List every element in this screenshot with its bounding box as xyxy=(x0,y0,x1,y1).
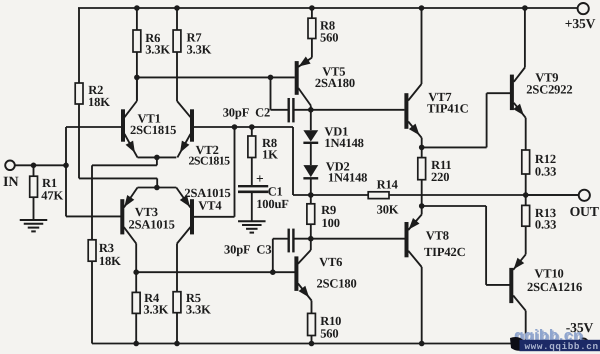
svg-text:18K: 18K xyxy=(88,95,110,109)
svg-text:2SC2922: 2SC2922 xyxy=(526,82,572,96)
svg-text:www.qqibb.cn: www.qqibb.cn xyxy=(525,341,599,352)
svg-text:2SC1815: 2SC1815 xyxy=(130,123,176,137)
svg-text:18K: 18K xyxy=(99,254,121,268)
svg-text:1N4148: 1N4148 xyxy=(324,136,363,150)
svg-text:2SC1815: 2SC1815 xyxy=(189,153,231,167)
svg-text:VT6: VT6 xyxy=(319,255,342,269)
svg-text:3.3K: 3.3K xyxy=(187,42,212,56)
svg-text:1K: 1K xyxy=(262,147,278,161)
svg-text:R3: R3 xyxy=(99,241,114,255)
svg-text:+: + xyxy=(256,171,264,186)
svg-text:+35V: +35V xyxy=(565,16,596,31)
svg-text:30K: 30K xyxy=(377,203,399,217)
svg-text:OUT: OUT xyxy=(570,204,599,219)
svg-text:3.3K: 3.3K xyxy=(186,303,211,317)
svg-text:R14: R14 xyxy=(377,178,399,192)
svg-text:IN: IN xyxy=(3,174,19,190)
svg-text:560: 560 xyxy=(320,31,338,45)
svg-text:3.3K: 3.3K xyxy=(145,43,170,57)
svg-text:TIP41C: TIP41C xyxy=(427,101,469,115)
svg-text:0.33: 0.33 xyxy=(535,218,556,232)
svg-text:2SA180: 2SA180 xyxy=(315,76,355,90)
svg-text:1N4148: 1N4148 xyxy=(328,171,367,185)
svg-text:47K: 47K xyxy=(41,189,63,203)
svg-text:2SCA1216: 2SCA1216 xyxy=(527,280,582,294)
svg-text:2SC180: 2SC180 xyxy=(317,276,357,290)
svg-text:VT10: VT10 xyxy=(534,267,563,281)
svg-text:100uF: 100uF xyxy=(256,197,289,211)
svg-text:3.3K: 3.3K xyxy=(143,303,168,317)
svg-text:100: 100 xyxy=(322,216,340,230)
svg-text:30pF C3: 30pF C3 xyxy=(224,243,271,257)
svg-text:TIP42C: TIP42C xyxy=(424,245,466,259)
svg-text:30pF C2: 30pF C2 xyxy=(223,106,270,120)
svg-text:220: 220 xyxy=(431,170,449,184)
svg-text:2SA1015: 2SA1015 xyxy=(129,217,175,231)
svg-text:560: 560 xyxy=(320,326,338,340)
svg-text:VT8: VT8 xyxy=(426,228,449,242)
svg-text:VT4: VT4 xyxy=(198,198,222,212)
svg-text:0.33: 0.33 xyxy=(535,164,556,178)
